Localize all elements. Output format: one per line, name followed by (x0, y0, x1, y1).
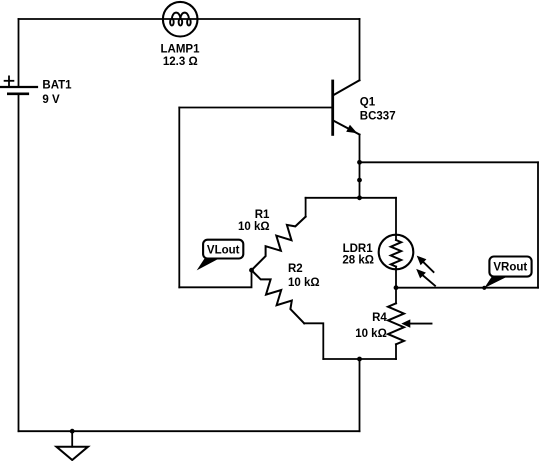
wire left rail upper (battery top) (18, 19, 20, 87)
VLout flag tail (197, 258, 221, 271)
node B: emitter junction to right loop (357, 160, 362, 165)
node E: LDR1 bottom / R4 top junction (394, 285, 399, 290)
battery negative plate (8, 93, 28, 96)
wire bottom right vertical (359, 359, 361, 431)
LDR1 photoresistor (379, 235, 435, 286)
node C: emitter rail mid junction (357, 178, 362, 183)
node H: VRout probe point (482, 286, 486, 290)
wire LDR top lead (395, 198, 397, 240)
wire inner bottom (179, 270, 251, 287)
svg-text:10 kΩ: 10 kΩ (238, 221, 270, 233)
svg-text:BAT1: BAT1 (42, 80, 72, 92)
resistor R1 (252, 217, 306, 271)
svg-text:R2: R2 (288, 263, 303, 275)
svg-text:10 kΩ: 10 kΩ (355, 328, 387, 340)
svg-text:10 kΩ: 10 kΩ (288, 277, 320, 289)
R4 wiper arrowhead (401, 319, 410, 327)
LDR1 light arrow 2 head (416, 269, 426, 279)
R4 zigzag body (388, 303, 404, 344)
svg-text:R4: R4 (372, 312, 387, 324)
Q1 base bar (331, 81, 334, 134)
VRout flag box (489, 257, 531, 277)
Q1 collector stroke (334, 80, 360, 95)
svg-text:LAMP1: LAMP1 (161, 44, 201, 56)
LDR1 envelope circle (379, 235, 414, 270)
flag VRout (484, 257, 531, 289)
wire mid horizontal y198 (306, 197, 396, 199)
svg-text:BC337: BC337 (360, 110, 396, 122)
ground stub (71, 431, 73, 447)
svg-text:12.3 Ω: 12.3 Ω (163, 56, 198, 68)
svg-text:Q1: Q1 (360, 96, 376, 108)
Q1 emitter arrowhead (346, 125, 357, 133)
R4 wiper shaft (410, 323, 431, 325)
wire inner left rail (178, 108, 180, 288)
Q1 emitter stroke (334, 121, 360, 135)
battery plus sign vertical (8, 76, 10, 85)
svg-text:VLout: VLout (207, 245, 240, 257)
transistor Q1 (333, 19, 360, 135)
LDR1 internal zigzag (391, 240, 401, 267)
VRout flag tail (484, 276, 509, 289)
lamp filament arch 1 (172, 13, 181, 19)
wire R2 elbow (304, 323, 323, 359)
battery positive plate (0, 86, 37, 88)
node A: R1/R2 divider junction (249, 268, 254, 273)
lamp filament arch 2 (180, 13, 189, 19)
wire right bottom horizontal (396, 287, 538, 289)
LDR1 light arrow 1 head (417, 256, 427, 266)
node D: emitter rail / R1-LDR wire junction (357, 195, 362, 200)
node F: R2/R4 bottom junction (357, 357, 362, 362)
battery plus sign horizontal (5, 80, 14, 82)
wire emitter rail (359, 135, 361, 198)
lamp LAMP1 (163, 2, 198, 37)
wire R1 corner (305, 198, 307, 217)
potentiometer R4 (388, 303, 432, 344)
svg-text:LDR1: LDR1 (343, 243, 374, 255)
ground (56, 431, 88, 460)
ground triangle (56, 447, 88, 460)
wire left rail lower (18, 95, 20, 432)
svg-text:R1: R1 (255, 209, 270, 221)
wire emitter junction to right rail (360, 161, 539, 163)
resistor R2 (252, 270, 305, 323)
wire R4 bottom lead (395, 344, 397, 359)
LDR1 light arrow 1 shaft (424, 262, 434, 272)
wire top rail (19, 18, 360, 20)
svg-text:VRout: VRout (493, 262, 527, 274)
wire right rail (537, 162, 539, 287)
svg-text:9 V: 9 V (42, 94, 60, 106)
lamp filament loop 2 (179, 19, 183, 26)
node G: ground junction (70, 429, 75, 434)
Q1 collector lead (359, 19, 361, 80)
wire lower middle horizontal (323, 358, 396, 360)
wire base lead (179, 107, 332, 109)
lamp filament loop 1 (170, 19, 174, 26)
flag VLout (197, 240, 244, 271)
VLout flag box (203, 240, 243, 259)
lamp filament loop 3 (187, 19, 191, 26)
lamp envelope circle (163, 2, 198, 37)
svg-text:28 kΩ: 28 kΩ (342, 255, 374, 267)
wire LDR bottom lead (395, 267, 397, 304)
wire bottom rail (19, 430, 360, 432)
LDR1 light arrow 2 shaft (423, 276, 435, 286)
battery BAT1 (0, 76, 37, 93)
